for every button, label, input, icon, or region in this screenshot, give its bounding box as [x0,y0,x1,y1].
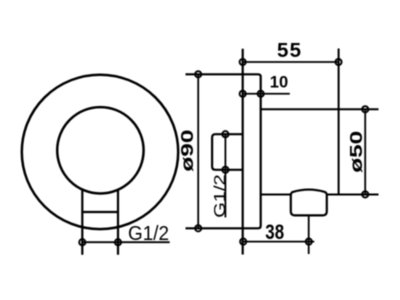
55 dimension line [243,61,339,63]
body bottom edge right segment [327,194,379,196]
dim point left (front view G1/2) [79,239,85,245]
dim point right (55) [335,59,341,65]
svg-text:38: 38 [265,221,284,244]
G1/2 dimension line (side view) [224,134,226,217]
body right face [338,49,340,195]
connector stub left edge [81,189,83,255]
svg-text:55: 55 [277,39,302,62]
svg-text:ø90: ø90 [178,129,198,171]
connector stub nut line [82,211,118,213]
dim point top (side G1/2) [222,131,228,137]
10 dimension line [243,93,290,95]
svg-text:G1/2: G1/2 [128,223,169,245]
svg-text:G1/2: G1/2 [211,174,228,218]
outlet spout [291,190,327,216]
spout centre extension line [308,215,310,254]
dim point bottom (dia50) [362,191,368,197]
wall line [242,49,244,255]
dim point right (10) [258,91,264,97]
body top edge [261,108,379,110]
dim point right (38) [306,239,312,245]
G1/2 inlet stub (side view) [212,134,243,170]
escutcheon plate outline (side view) [186,74,261,228]
dim point bottom (dia90) [195,225,201,231]
connector stub right edge [117,189,119,255]
38 dimension line [243,241,314,243]
dim point top (dia90) [195,71,201,77]
svg-text:ø50: ø50 [346,131,366,173]
dia90 dimension line [197,74,199,228]
body bottom edge left segment [261,194,291,196]
svg-text:10: 10 [270,74,288,92]
dim point left (38) [240,239,246,245]
dim point left (55) [240,59,246,65]
dim point left (10) [240,91,246,97]
G1/2 dimension line (front view) [82,241,169,243]
dim point top (dia50) [362,106,368,112]
outer circle ø90 (front view escutcheon) [22,75,178,229]
inner circle (front view body) [57,107,143,193]
dim point right (front view G1/2) [115,239,121,245]
dim point bottom (side G1/2) [222,167,228,173]
dia50 dimension line [364,109,366,194]
